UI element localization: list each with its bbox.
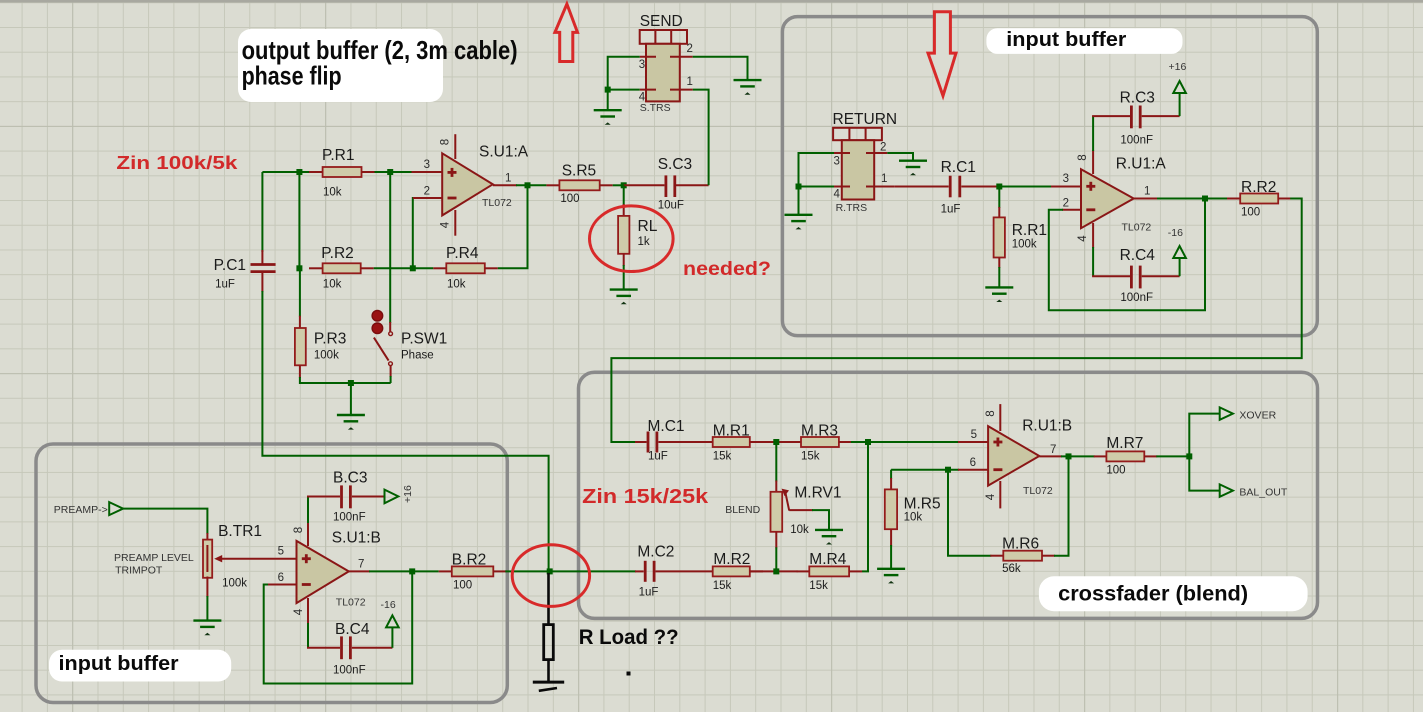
wire M.R7 to terminals [1156,455,1189,457]
svg-text:M.C1: M.C1 [648,418,685,435]
wire P.C1 bottom long run to node [262,291,548,571]
wire to ground [350,383,352,415]
wire to XOVER [1189,414,1219,457]
wire M.R3 to pin5 [851,441,959,443]
svg-text:R.R2: R.R2 [1241,179,1276,196]
svg-text:needed?: needed? [683,258,771,280]
svg-text:4: 4 [834,189,841,201]
wire op-amp B output [349,570,370,572]
ground R.R1 [985,287,1013,302]
frame: input buffer box (top right) [782,17,1317,336]
svg-text:3: 3 [424,159,430,171]
svg-text:6: 6 [970,457,976,469]
svg-text:SEND: SEND [640,13,683,30]
power +16 right-pointing [385,490,399,504]
node junction output B2 [1066,453,1072,459]
svg-text:3: 3 [834,156,840,168]
node junction P.R1/P.R2 vertical [296,169,302,175]
svg-text:10uF: 10uF [658,200,684,212]
wire S.C3 up to SEND pin1 [693,90,709,186]
R Load black resistor [544,573,554,682]
power -16 [1173,246,1186,258]
ground B.TR1 [193,621,221,636]
svg-text:2: 2 [687,43,693,55]
svg-text:R.C4: R.C4 [1120,247,1156,264]
svg-text:P.SW1: P.SW1 [401,331,447,348]
svg-text:M.C2: M.C2 [637,544,674,561]
trimpot B.TR1 [114,523,297,621]
svg-text:XOVER: XOVER [1239,410,1276,422]
svg-text:1uF: 1uF [648,451,668,463]
resistor P.R2 [309,245,374,291]
resistor B.R2 [439,552,507,592]
wire SEND pin3/pin4 to ground [608,57,640,110]
capacitor M.C2 [550,544,713,599]
svg-text:R.C3: R.C3 [1120,90,1155,107]
svg-text:15k: 15k [809,580,828,592]
resistor S.R5 [546,162,612,205]
svg-text:BAL_OUT: BAL_OUT [1239,487,1287,499]
node junction M.R3/M.R4 [865,439,871,445]
svg-text:crossfader (blend): crossfader (blend) [1058,582,1248,605]
svg-text:100nF: 100nF [1120,292,1153,304]
wire switch drop [389,172,391,323]
annotation: input buffer label (top right) [986,28,1182,54]
wire op-amp output [493,184,517,186]
ground SEND pin2 [734,80,762,95]
svg-text:1k: 1k [638,236,650,248]
node junction main node [547,568,553,574]
svg-text:100: 100 [453,580,472,592]
node junction terminals [1186,453,1192,459]
power +16 [1173,81,1186,93]
node junction pin6/M.R6 [945,467,951,473]
svg-text:R Load ??: R Load ?? [579,625,679,649]
annotation: red ellipse around RL [590,206,674,272]
capacitor R.C1 [894,159,999,216]
op-amp S.U1:A [424,134,529,236]
svg-text:1uF: 1uF [941,204,961,216]
capacitor S.C3 [624,156,709,212]
wire S.R5 to junction [613,184,625,186]
svg-text:1: 1 [687,76,693,88]
svg-text:4: 4 [440,221,452,228]
svg-text:100k: 100k [222,577,247,589]
svg-text:100: 100 [1241,207,1260,219]
wire RETURN pin3/pin4 left to ground [799,153,835,215]
wire M.R6 feedback [948,470,991,556]
svg-text:4: 4 [1077,235,1089,242]
wire to op-amp pin3 [999,186,1052,188]
wire pin6 net [891,469,959,471]
svg-text:P.R3: P.R3 [314,331,346,348]
svg-text:5: 5 [971,429,977,441]
svg-text:S.C3: S.C3 [658,156,692,173]
svg-text:Phase: Phase [401,349,434,361]
pin5 stub [958,441,988,443]
ground [337,415,365,430]
wire SEND pin2 to ground [693,57,748,80]
svg-text:M.R7: M.R7 [1106,435,1143,452]
wire pin2 feedback loop [1062,209,1081,211]
pin3 stub S.U1:A [412,171,442,173]
svg-text:8: 8 [293,527,305,533]
svg-text:B.TR1: B.TR1 [218,523,262,540]
svg-text:P.C1: P.C1 [214,257,246,274]
svg-text:100k: 100k [1012,238,1037,250]
svg-text:100k: 100k [314,349,339,361]
ground RETURN left [785,215,813,230]
svg-text:5: 5 [278,546,284,558]
svg-text:6: 6 [278,572,284,584]
svg-text:100nF: 100nF [1120,135,1153,147]
svg-text:PREAMP->: PREAMP-> [54,504,108,516]
pin6 stub [958,469,988,471]
pin2 wire S.U1:A [413,198,414,268]
svg-text:B.R2: B.R2 [452,552,486,569]
svg-text:100: 100 [560,193,579,205]
svg-text:R.C1: R.C1 [941,159,976,176]
wire vertical to P.R2 [298,172,300,268]
op-amp S.U1:B [278,522,381,624]
svg-text:100: 100 [1106,465,1125,477]
resistor M.R4 [797,551,863,592]
capacitor R.C3 [1092,90,1180,152]
top window edge band [0,0,1423,3]
svg-text:7: 7 [1050,444,1056,456]
svg-text:-16: -16 [381,599,396,611]
node junction R.R1 tap [996,184,1002,190]
annotation: red ellipse around node [512,545,589,607]
svg-text:input buffer: input buffer [1006,29,1126,51]
node junction pin2 drop on P.R2 net [410,265,416,271]
svg-text:M.R5: M.R5 [904,496,941,513]
ground RETURN pin2 [899,161,927,176]
svg-text:RL: RL [638,218,658,235]
annotation: input buffer label (bottom left) [49,650,231,682]
wire M.R6 to output [1054,456,1069,555]
wire M.R1 to junction [750,441,790,443]
svg-text:TL072: TL072 [336,597,366,609]
node junction SEND left [605,87,611,93]
svg-text:PREAMP LEVEL: PREAMP LEVEL [114,552,194,564]
svg-text:15k: 15k [713,451,732,463]
resistor P.R4 [433,245,498,291]
switch P.SW1 [372,310,447,383]
svg-text:2: 2 [424,186,430,198]
svg-text:TL072: TL072 [482,197,512,209]
svg-text:8: 8 [1077,154,1089,160]
svg-text:TL072: TL072 [1122,222,1152,234]
wire P.R4 right feedback up [498,185,528,268]
resistor R.R1 [994,187,1047,288]
wire R.R2 long run to crossfader [611,199,1301,444]
capacitor B.C3 [307,470,385,524]
resistor M.R3 [789,423,852,463]
svg-text:M.RV1: M.RV1 [794,485,841,502]
capacitor P.C1 [214,250,276,292]
svg-text:M.R2: M.R2 [713,551,750,568]
svg-text:Zin 15k/25k: Zin 15k/25k [582,485,709,508]
wire to BAL_OUT [1189,456,1219,490]
svg-text:7: 7 [358,559,364,571]
terminal BAL_OUT [1220,484,1233,496]
svg-text:-16: -16 [1168,227,1183,239]
ground SEND left [594,110,622,125]
svg-text:10k: 10k [323,279,342,291]
annotation: red down arrow [928,12,956,96]
wire input net left drop to P.C1 [261,172,263,252]
wire RETURN pin2 to ground [887,153,913,161]
connector SEND S.TRS [639,13,693,114]
svg-text:input buffer: input buffer [59,653,179,675]
capacitor M.C1 [611,418,712,463]
svg-text:Zin 100k/5k: Zin 100k/5k [116,152,238,173]
svg-text:56k: 56k [1002,563,1021,575]
svg-text:M.R4: M.R4 [809,551,846,568]
svg-text:S.TRS: S.TRS [640,102,671,114]
svg-text:100nF: 100nF [333,665,366,677]
svg-text:+16: +16 [1169,61,1187,73]
svg-text:10k: 10k [447,279,466,291]
svg-text:R.TRS: R.TRS [836,202,868,214]
svg-text:8: 8 [440,139,452,145]
svg-text:10k: 10k [790,524,809,536]
wire pin6 feedback loop B [267,584,297,586]
svg-text:TRIMPOT: TRIMPOT [115,564,163,576]
node junction P.R1 right / switch drop [387,169,393,175]
ground black sketchy [533,681,564,684]
svg-text:RETURN: RETURN [833,111,898,128]
svg-text:4: 4 [293,608,305,615]
svg-text:2: 2 [1063,198,1069,210]
frame: crossfader box (bottom right) [579,372,1318,618]
capacitor R.C4 [1092,247,1180,304]
svg-text:S.U1:A: S.U1:A [479,144,529,161]
wire main input net [262,171,441,173]
svg-text:S.R5: S.R5 [562,162,596,179]
wire op-amp A output [1134,198,1158,200]
resistor M.R5 [885,470,941,569]
svg-text:3: 3 [1063,173,1069,185]
svg-text:100nF: 100nF [333,512,366,524]
node junction output [525,182,531,188]
svg-text:+16: +16 [402,485,414,503]
svg-text:B.C3: B.C3 [333,470,367,487]
ground RL [610,290,638,305]
node junction M.RV1 bottom [773,568,779,574]
svg-text:M.R1: M.R1 [713,423,750,440]
annotation: output buffer white box [238,29,443,102]
resistor M.R7 [1094,435,1158,477]
svg-text:S.U1:B: S.U1:B [332,530,381,547]
terminal XOVER [1220,407,1233,419]
annotation: crossfader (blend) label [1039,576,1308,611]
frame: input buffer box (bottom left) [36,444,507,703]
svg-text:1: 1 [1144,186,1150,198]
svg-text:B.C4: B.C4 [335,621,370,638]
resistor P.R1 [309,147,375,199]
svg-text:1: 1 [881,173,887,185]
wire PREAMP to trimpot [123,509,207,534]
wire M.R3/M.R4 vertical [862,442,868,571]
op-amp R.U1:B [970,404,1073,508]
svg-text:1uF: 1uF [639,587,659,599]
svg-text:10k: 10k [323,187,342,199]
resistor P.R3 [295,268,391,383]
resistor M.R6 [990,536,1055,576]
svg-text:1uF: 1uF [215,279,235,291]
svg-text:BLEND: BLEND [725,504,760,516]
power -16 up [386,615,399,627]
svg-text:15k: 15k [801,451,820,463]
svg-text:2: 2 [880,142,886,154]
svg-text:4: 4 [985,493,997,500]
wire op-amp B2 output [1039,455,1062,457]
annotation: small dot [627,672,631,676]
node junction P.R2 left [296,265,302,271]
svg-text:8: 8 [985,410,997,416]
connector RETURN R.TRS [833,111,898,214]
ground M.R5 [877,569,905,584]
svg-text:R.U1:A: R.U1:A [1116,156,1167,173]
svg-text:M.R3: M.R3 [801,423,838,440]
potentiometer M.RV1 [725,442,841,571]
svg-text:P.R4: P.R4 [446,245,479,262]
resistor M.R1 [713,423,763,463]
wire P.R2 to P.R4 [374,267,434,269]
svg-text:10k: 10k [904,512,923,524]
svg-text:phase flip: phase flip [242,61,342,91]
svg-text:P.R2: P.R2 [321,245,353,262]
node junction M.RV1 top [773,439,779,445]
node junction RL tap [621,182,627,188]
resistor RL [618,185,658,289]
svg-text:R.R1: R.R1 [1012,222,1047,239]
svg-text:3: 3 [639,59,645,71]
resistor M.R2 [713,551,763,592]
node junction ground on switch net [348,380,354,386]
svg-text:R.U1:B: R.U1:B [1022,418,1072,435]
wire M.R2 to junction [750,570,798,572]
svg-text:1: 1 [505,173,511,185]
svg-text:TL072: TL072 [1023,485,1053,497]
resistor R.R2 [1227,179,1291,219]
op-amp R.U1:A [1063,150,1167,248]
annotation: red up arrow [555,4,578,62]
node junction output B [409,568,415,574]
node junction output A [1202,196,1208,202]
svg-text:15k: 15k [713,580,732,592]
svg-text:P.R1: P.R1 [322,147,354,164]
node junction RETURN left [796,184,802,190]
wire B.R2 to node [505,570,549,572]
capacitor B.C4 [307,621,392,677]
ground M.RV1 wiper [815,530,843,545]
svg-text:M.R6: M.R6 [1002,536,1039,553]
